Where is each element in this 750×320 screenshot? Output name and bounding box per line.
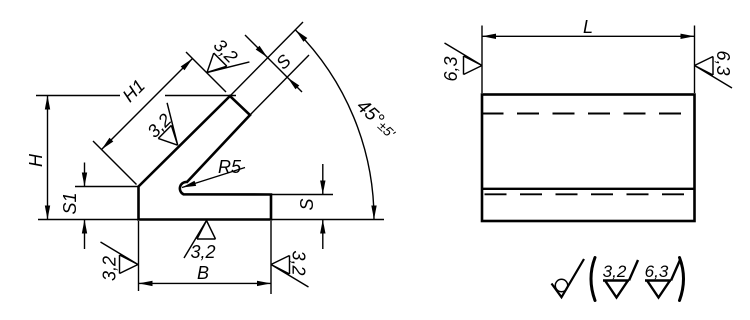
dimension L extension line left: [481, 26, 483, 94]
arrow H1 lower: [100, 138, 114, 152]
svg-text:3,2: 3,2: [289, 250, 309, 275]
roughness symbol 3,2 top: [201, 40, 250, 89]
arrow H bottom: [45, 206, 50, 220]
arrow S diag lower: [286, 76, 300, 90]
roughness symbol 3,2 right: [271, 256, 309, 288]
svg-text:3,2: 3,2: [190, 242, 215, 262]
dimension H1 line: [102, 59, 193, 150]
roughness symbol 6,3 left view: [445, 43, 483, 75]
arrow L right: [681, 34, 695, 39]
side view inner solid edge: [483, 188, 694, 190]
svg-text:S1: S1: [60, 192, 80, 214]
roughness symbol 3,2 slope: [145, 103, 194, 152]
svg-text:B: B: [197, 263, 209, 283]
arrow arc bottom: [371, 206, 376, 220]
roughness symbol 3,2 left: [101, 242, 139, 274]
side view hidden line lower: [485, 193, 694, 195]
dimension H1 extension line lower: [93, 141, 137, 185]
svg-text:3,2: 3,2: [100, 256, 120, 281]
svg-text:R5: R5: [218, 157, 242, 177]
angle dimension arc 45 deg: [296, 30, 375, 220]
legend basic check symbol: [552, 259, 585, 297]
dimension S1 line lower: [84, 220, 86, 250]
profile outline left view: [139, 96, 272, 220]
arrow B left: [139, 281, 153, 286]
side view hidden line upper: [482, 113, 694, 115]
arrow H1 upper: [181, 57, 195, 71]
dimension S right line lower: [322, 220, 324, 250]
arrow S1 bottom: [82, 220, 87, 234]
baseline wire (bottom reference line): [38, 219, 384, 221]
svg-text:H: H: [26, 153, 46, 167]
dimension H line: [47, 96, 49, 220]
arrow S right bottom: [320, 220, 325, 234]
dimension H1 extension line upper: [186, 52, 226, 92]
dimension B extension line right: [270, 221, 272, 294]
legend circle: [555, 279, 567, 291]
svg-text:6,3: 6,3: [645, 262, 669, 281]
dimension H extension line top segment 2: [165, 95, 236, 97]
arrow arc top: [294, 28, 308, 42]
svg-text:6,3: 6,3: [713, 50, 733, 75]
dimension S1 line upper: [84, 163, 86, 187]
arrow S1 top: [82, 173, 87, 187]
dimension B line: [139, 282, 272, 284]
dimension S1 extension line: [75, 186, 139, 188]
extension line of outer edge (angle leg): [230, 22, 303, 96]
roughness symbol 3,2 bottom: [184, 221, 216, 259]
dimension B extension line left: [138, 221, 140, 291]
svg-text:6,3: 6,3: [441, 56, 461, 81]
legend roughness symbol 3,2: [603, 260, 638, 298]
legend open paren: [591, 258, 595, 301]
dimension L extension line right: [694, 26, 696, 94]
dimension S right line upper: [322, 164, 324, 195]
svg-text:S: S: [297, 198, 317, 210]
dimension S right extension line: [271, 194, 333, 196]
dimension H extension line top: [36, 95, 120, 97]
dimension S line (diagonal): [245, 35, 302, 92]
legend close paren: [680, 258, 684, 301]
arrow R5: [181, 181, 196, 190]
arrow B right: [257, 281, 271, 286]
roughness symbol 6,3 right view: [695, 57, 733, 89]
arrow H top: [45, 96, 50, 110]
dimension L line: [482, 35, 695, 37]
side view rectangle: [482, 95, 695, 222]
arrow S right top: [320, 181, 325, 195]
arrow L left: [482, 34, 496, 39]
dimension S extension line inner: [250, 55, 309, 115]
svg-text:L: L: [583, 17, 593, 37]
leader line R5: [182, 168, 245, 188]
arrow S diag upper: [256, 46, 270, 60]
legend roughness symbol 6,3: [645, 260, 680, 298]
svg-text:3,2: 3,2: [603, 262, 627, 281]
